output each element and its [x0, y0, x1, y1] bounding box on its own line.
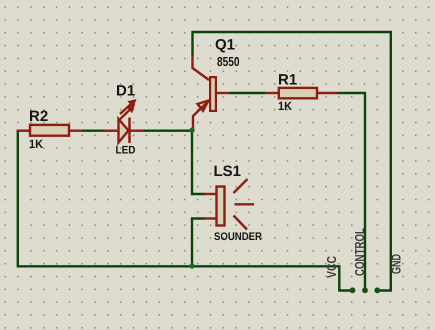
svg-text:R1: R1 [278, 72, 297, 89]
svg-text:D1: D1 [116, 82, 135, 99]
svg-text:Q1: Q1 [215, 37, 235, 54]
svg-text:1K: 1K [29, 137, 43, 151]
svg-text:LS1: LS1 [214, 163, 242, 180]
svg-text:1K: 1K [278, 99, 292, 113]
svg-text:CONTROL: CONTROL [352, 228, 367, 276]
svg-text:LED: LED [116, 145, 136, 157]
svg-text:8550: 8550 [217, 54, 240, 69]
svg-text:R2: R2 [29, 108, 48, 125]
svg-text:SOUNDER: SOUNDER [214, 231, 262, 243]
svg-text:GND: GND [389, 254, 404, 274]
svg-text:VCC: VCC [324, 256, 339, 278]
